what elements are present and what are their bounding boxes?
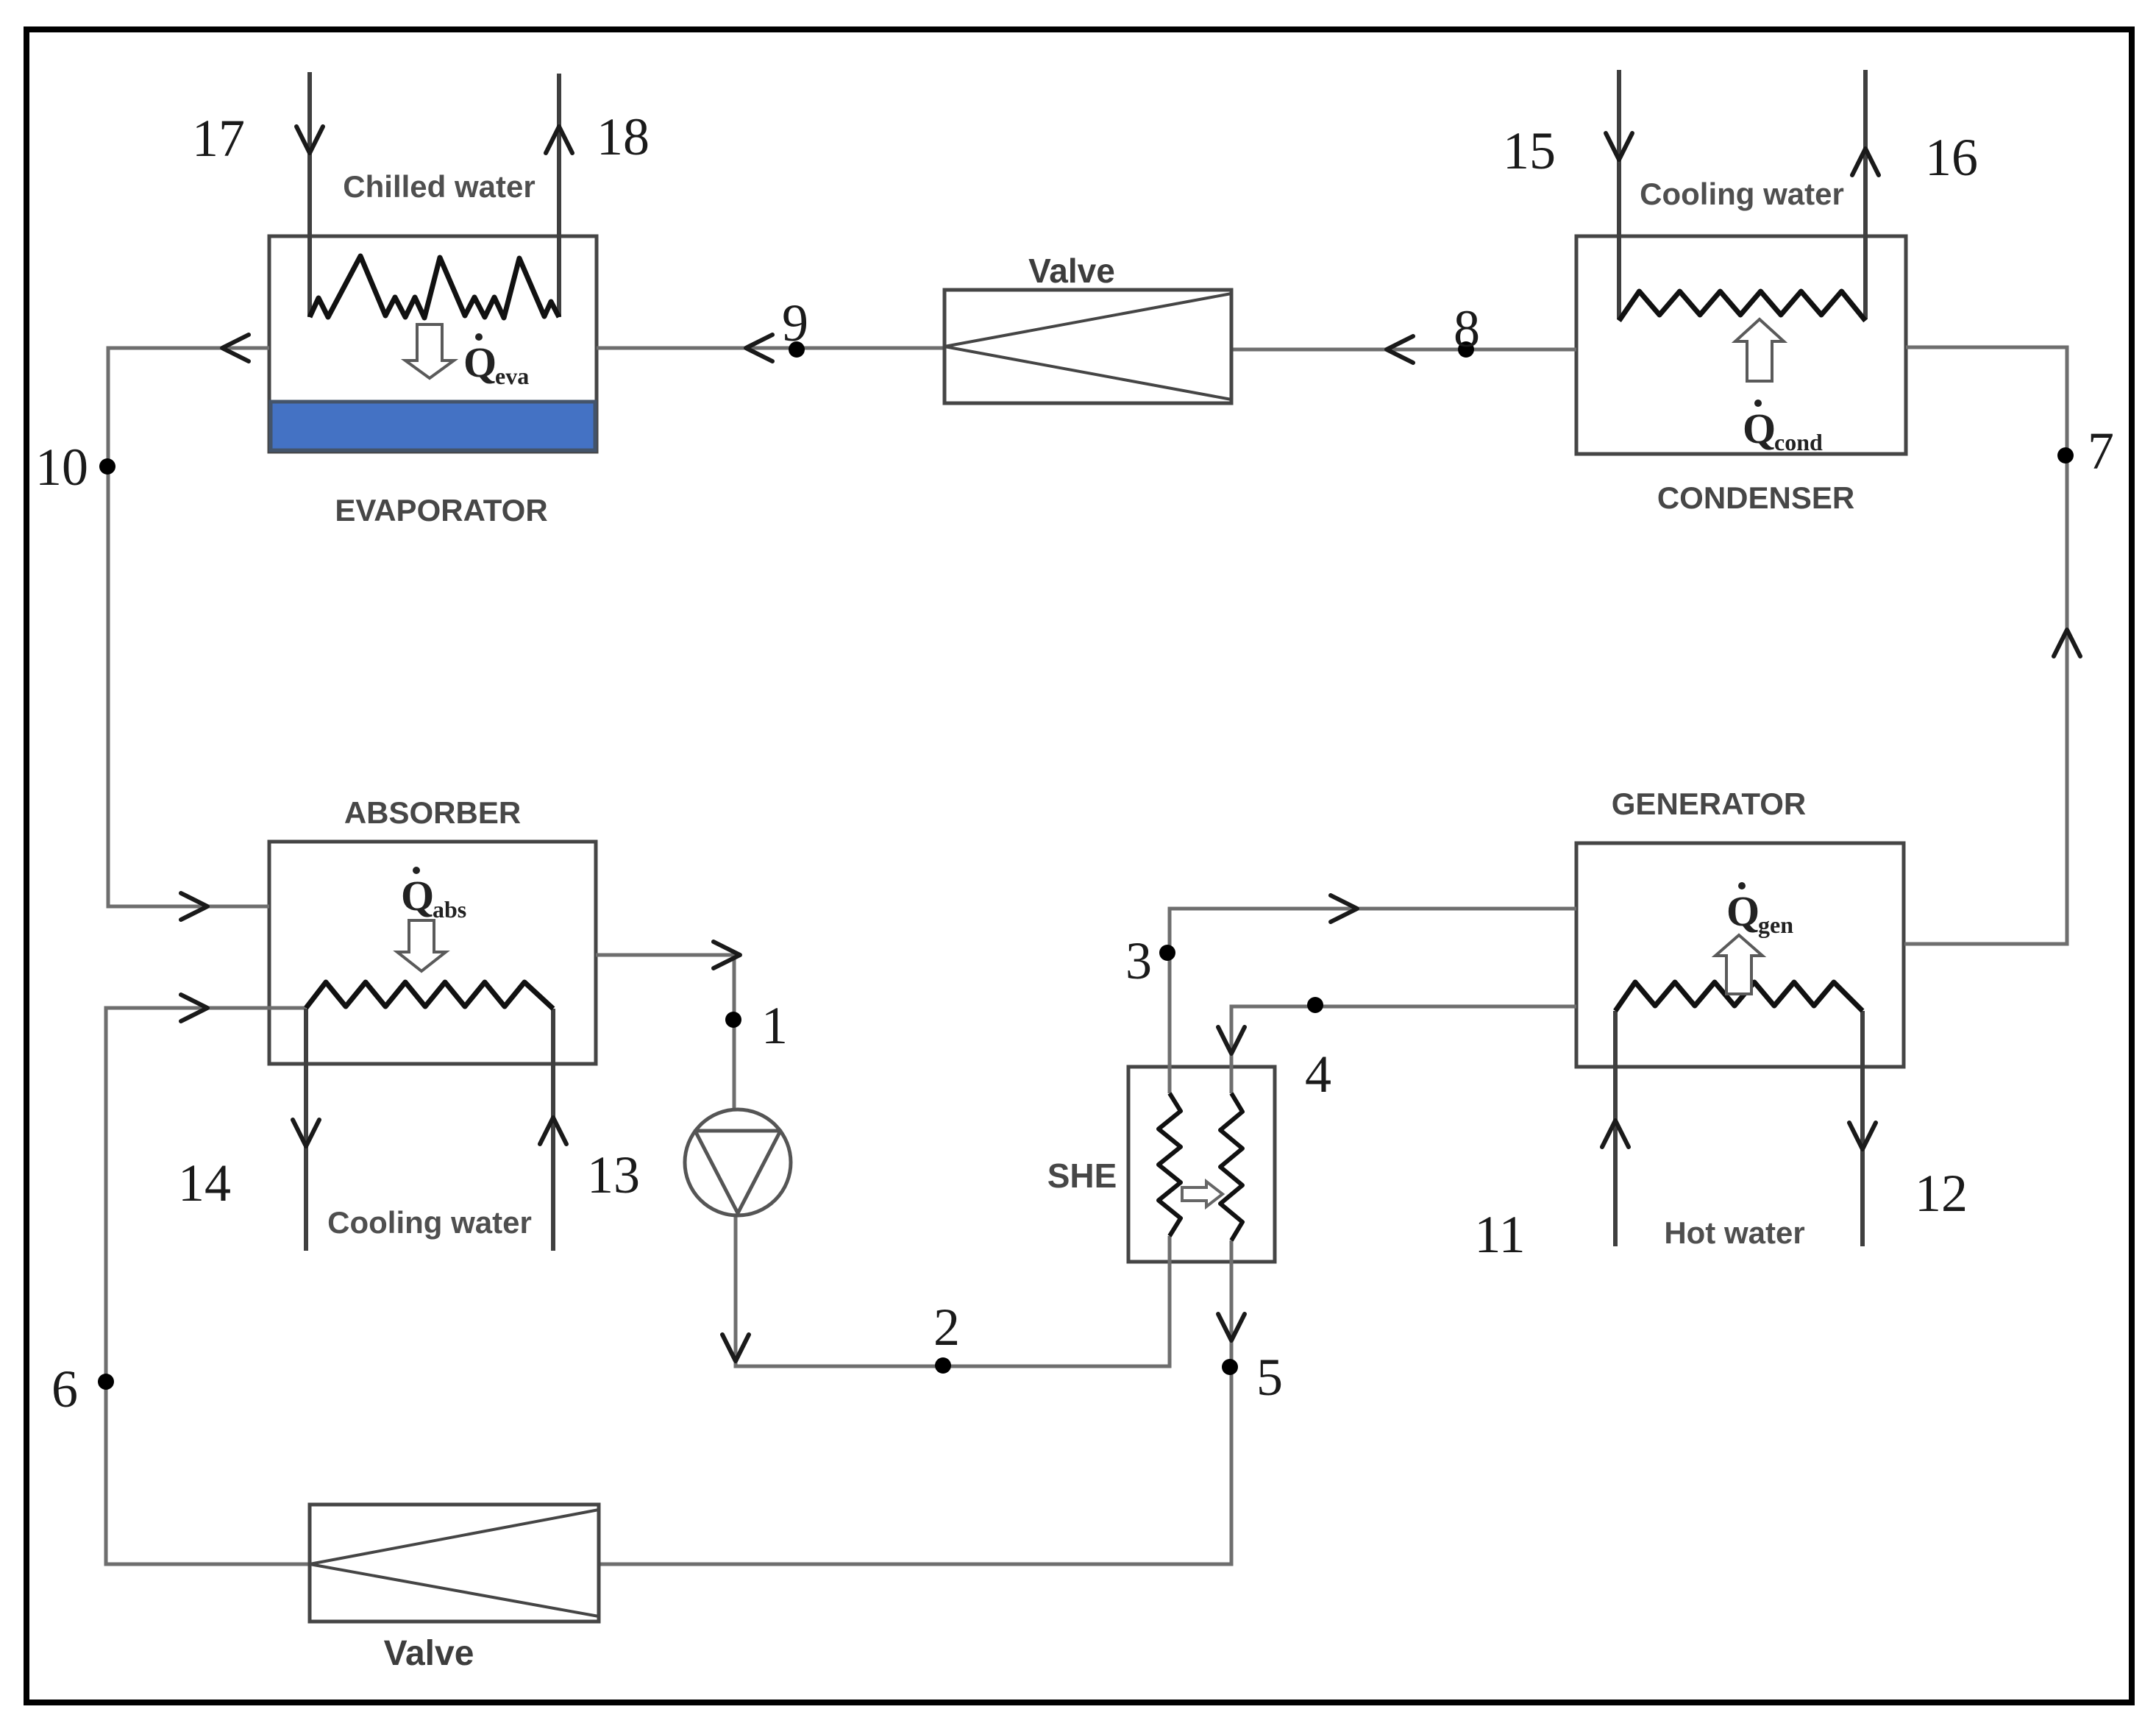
svg-text:Cooling water: Cooling water (1640, 177, 1844, 211)
svg-text:9: 9 (782, 294, 808, 352)
chilled water outlet pipe 18 (546, 74, 572, 317)
svg-text:10: 10 (35, 438, 88, 497)
condenser coil (1619, 291, 1865, 321)
svg-text:Q: Q (1743, 405, 1776, 452)
node 4 (1307, 997, 1323, 1013)
svg-text:Valve: Valve (384, 1634, 474, 1673)
Q_eva label (463, 333, 529, 389)
Q_gen block arrow (1715, 935, 1762, 994)
svg-text:GENERATOR: GENERATOR (1612, 786, 1806, 821)
Q_gen label (1726, 882, 1793, 938)
svg-text:Chilled water: Chilled water (343, 169, 535, 204)
absorber coil (306, 982, 553, 1009)
svg-text:cond: cond (1774, 429, 1823, 455)
svg-text:Hot water: Hot water (1664, 1215, 1804, 1250)
svg-text:7: 7 (2088, 422, 2114, 480)
Q_cond block arrow (1735, 319, 1784, 381)
wire valve V2 outlet to absorber via node 6 (106, 995, 310, 1564)
svg-text:6: 6 (51, 1360, 78, 1418)
svg-text:1: 1 (761, 996, 788, 1055)
valve V2 (SHE to absorber) (310, 1505, 599, 1622)
svg-text:13: 13 (587, 1146, 640, 1204)
wire absorber outlet to pump (node 1) (596, 942, 740, 1112)
svg-text:Valve: Valve (1028, 252, 1115, 290)
SHE left resistor (1159, 1093, 1181, 1236)
node 5 (1222, 1359, 1238, 1375)
evaporator vessel (269, 236, 597, 452)
generator coil (1615, 982, 1863, 1011)
wire condenser outlet to valve V1 (node 8) (1231, 336, 1576, 363)
evaporator liquid pool (blue) (271, 402, 595, 450)
node 1 (725, 1012, 741, 1028)
svg-text:5: 5 (1256, 1348, 1283, 1407)
evaporator coil (310, 256, 559, 318)
SHE box (1128, 1067, 1275, 1262)
wire pump outlet to SHE (node 2) (722, 1214, 1170, 1366)
wire evaporator outlet to absorber via node 10 (108, 335, 269, 920)
SHE heat-transfer arrow (1182, 1182, 1223, 1207)
absorber cooling water inlet leg 13 (540, 1009, 566, 1251)
svg-text:gen: gen (1758, 912, 1793, 938)
pump (685, 1109, 791, 1215)
Q_abs block arrow (397, 920, 446, 971)
wire generator vapor outlet to condenser via node 7 (1904, 347, 2080, 944)
svg-text:Q: Q (463, 338, 497, 386)
node 2 (935, 1357, 951, 1374)
svg-text:12: 12 (1915, 1164, 1968, 1223)
svg-text:4: 4 (1305, 1045, 1331, 1104)
SHE right resistor (1220, 1093, 1242, 1240)
valve V1 (condenser to evaporator) (944, 290, 1231, 403)
node 9 (789, 341, 805, 358)
node 6 (98, 1374, 114, 1390)
svg-text:Cooling water: Cooling water (327, 1205, 532, 1240)
svg-text:eva: eva (495, 363, 529, 389)
svg-text:ABSORBER: ABSORBER (344, 795, 521, 830)
node 8 (1458, 341, 1474, 358)
wire SHE to generator (node 3) (1170, 895, 1576, 1093)
wire generator to SHE (node 4) (1218, 1006, 1576, 1093)
svg-text:2: 2 (933, 1298, 960, 1357)
svg-text:Q: Q (401, 872, 434, 920)
Q_eva block arrow (405, 324, 454, 378)
svg-text:11: 11 (1474, 1205, 1525, 1264)
absorber vessel (269, 842, 596, 1064)
node 10 (99, 458, 115, 475)
cooling water outlet pipe 16 (1852, 70, 1879, 319)
svg-text:8: 8 (1454, 299, 1480, 358)
cooling water inlet pipe 15 (1606, 70, 1632, 319)
svg-text:17: 17 (192, 109, 245, 168)
Q_abs label (401, 867, 466, 923)
svg-text:EVAPORATOR: EVAPORATOR (335, 493, 547, 528)
svg-text:SHE: SHE (1047, 1157, 1117, 1195)
node 3 (1159, 945, 1175, 961)
svg-text:14: 14 (178, 1154, 231, 1212)
svg-text:15: 15 (1503, 121, 1556, 180)
svg-text:16: 16 (1925, 128, 1978, 187)
wire SHE to valve V2 (node 5) (599, 1240, 1245, 1564)
node 7 (2057, 447, 2074, 464)
generator hot water inlet leg 11 (1602, 1011, 1629, 1246)
svg-text:3: 3 (1125, 931, 1152, 990)
svg-text:CONDENSER: CONDENSER (1657, 480, 1854, 515)
absorber cooling water outlet leg 14 (293, 1009, 319, 1251)
condenser vessel (1576, 236, 1906, 454)
svg-text:18: 18 (597, 107, 650, 166)
svg-text:Q: Q (1726, 887, 1760, 935)
chilled water inlet pipe 17 (296, 72, 323, 317)
wire valve V1 to evaporator (node 9) (597, 335, 944, 361)
Q_cond label (1743, 399, 1823, 455)
generator hot water outlet leg 12 (1849, 1011, 1876, 1246)
generator vessel (1576, 843, 1904, 1067)
svg-text:abs: abs (433, 896, 466, 923)
